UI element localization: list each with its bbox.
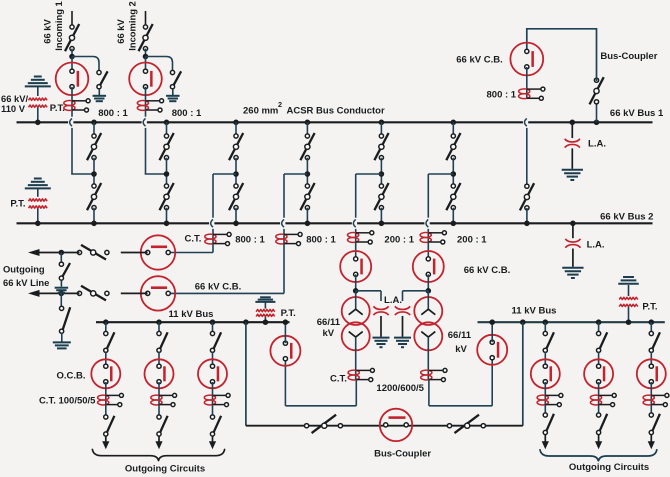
wire LA 2 to ground <box>402 316 404 337</box>
node outgoing circuit L2 bus tap <box>156 319 162 325</box>
arrow outgoing circuit L2 <box>155 441 162 449</box>
node transformer 1 LA junction <box>353 288 359 294</box>
circuit breaker incoming 1 66 kV C.B. <box>56 63 89 96</box>
wire bay 6 selector middle <box>452 158 454 186</box>
svg-text:66 kV C.B.: 66 kV C.B. <box>464 265 510 276</box>
node outgoing circuit L3 bus tap <box>210 319 216 325</box>
wire transformer feeder 2 CT to breaker <box>427 242 429 259</box>
wire outgoing line 2 switch to arrow <box>38 292 80 294</box>
wire bay 2 switch to Bus2 <box>166 208 168 224</box>
oil circuit breaker O.C.B. L3 <box>198 359 227 388</box>
node bay 6 selector junction <box>451 171 457 177</box>
ground outgoing line 2 earth <box>53 341 71 343</box>
wire bay 5 Bus1 to switch <box>380 122 382 134</box>
lightning arrester L.A. Bus 1 <box>571 122 573 138</box>
wire CT L3 to switch <box>212 405 214 417</box>
wire feeder 3 crossover hop at Bus 2 <box>352 222 357 225</box>
switch bay 2 Bus 1 selector <box>160 133 174 160</box>
node bay 6 Bus 2 tap <box>451 221 457 227</box>
wire bay 5 selector middle <box>380 158 382 186</box>
node bay 5 selector junction <box>379 171 385 177</box>
CT R2 outgoing <box>590 395 601 400</box>
svg-text:L.A.: L.A. <box>384 295 402 306</box>
switch bay 2 Bus 2 selector <box>160 183 174 210</box>
wire transformer 2 secondary drop <box>428 380 430 406</box>
circuit breaker transformer 2 66 kV C.B. <box>413 251 444 282</box>
wire LA branch transformer 1 <box>356 290 381 292</box>
wire CT R1 to switch <box>544 405 546 415</box>
wire OCB R1 to CT <box>544 382 546 405</box>
arrow outgoing circuit L3 <box>209 441 216 449</box>
wire transformer feeder 1 CT to breaker <box>355 242 357 259</box>
ground LA transformer 2 <box>394 337 411 339</box>
PT on 11 kV bus left <box>260 296 271 298</box>
wire bay 3 selector middle <box>235 158 237 186</box>
svg-text:C.T.: C.T. <box>330 373 347 384</box>
wire outgoing L1 to switch <box>105 322 107 333</box>
wire outgoing R2 to OCB <box>598 352 600 367</box>
svg-text:Bus-Coupler: Bus-Coupler <box>600 51 657 62</box>
switch coupler Bus 1 isolator <box>590 77 604 104</box>
circuit breaker transformer 1 66 kV C.B. <box>340 251 371 282</box>
node PT1 on Bus 1 <box>35 120 41 126</box>
node LA Bus 2 tap <box>570 221 576 227</box>
wire bay 1 Bus1 to switch <box>93 122 95 134</box>
node bay 1 Bus 1 tap <box>91 120 97 126</box>
wire incoming 1 crossover hop at Bus 1 <box>68 121 73 124</box>
switch bay 5 Bus 1 selector <box>374 133 388 160</box>
wire OCB R2 to CT <box>598 382 600 405</box>
switch outgoing line 1 <box>81 245 106 260</box>
node PT3 on 11 kV bus left <box>263 319 269 325</box>
svg-text:Bus-Coupler: Bus-Coupler <box>374 449 431 460</box>
node PT4 on 11 kV bus right <box>626 319 632 325</box>
transformer 66/11 kV T2 primary <box>414 297 442 325</box>
wire CT L2 to switch <box>158 405 160 417</box>
wire outgoing R1 to arrow <box>544 435 546 443</box>
node outgoing circuit R3 bus tap <box>649 319 655 325</box>
switch outgoing L3 upper <box>214 332 221 348</box>
svg-text:2: 2 <box>278 100 282 109</box>
node coupler riser left tap <box>243 319 249 325</box>
svg-text:Outgoing Circuits: Outgoing Circuits <box>125 464 205 475</box>
wire bay 5 switch to Bus2 <box>380 208 382 224</box>
switch incoming 1 earthing switch <box>100 71 107 85</box>
CT outgoing feeder 1 800:1 <box>205 234 216 239</box>
wire outgoing R2 to arrow <box>598 435 600 443</box>
svg-text:O.C.B.: O.C.B. <box>56 371 85 382</box>
wire bay 6 Bus1 to switch <box>452 122 454 134</box>
svg-text:P.T.: P.T. <box>642 302 657 313</box>
wire outgoing R3 to switch <box>650 322 652 333</box>
wire LA 1 to ground <box>380 316 382 337</box>
CT incoming 2 800:1 <box>137 101 148 106</box>
wire OCB L3 to CT <box>212 382 214 405</box>
wire LA branch transformer 2 <box>403 290 429 292</box>
wire incoming 1 CT to bay <box>71 128 73 174</box>
svg-text:66 kV: 66 kV <box>42 19 53 44</box>
node bay 3 Bus 2 tap <box>233 221 239 227</box>
svg-text:P.T.: P.T. <box>10 199 25 210</box>
wire earthing leg line 2 <box>60 293 62 307</box>
switch outgoing R1 lower <box>547 414 554 431</box>
switch outgoing R3 upper <box>653 332 660 348</box>
wire incomer left breaker to bus <box>284 322 286 343</box>
CT transformer feeder 1 200:1 <box>348 233 359 238</box>
wire T1 link to 11 kV incomer left <box>285 405 356 407</box>
svg-text:800 : 1: 800 : 1 <box>306 235 336 246</box>
wire outgoing line 2 breaker to switch <box>121 292 148 294</box>
node outgoing circuit R2 bus tap <box>596 319 602 325</box>
node bay 3 Bus 1 tap <box>233 120 239 126</box>
switch outgoing line 2 <box>81 286 106 301</box>
wire outgoing R1 to OCB <box>544 352 546 367</box>
node bay 5 Bus 1 tap <box>379 120 385 126</box>
wire transformer feeder 1 below Bus 2 <box>355 229 357 242</box>
node outgoing circuit R1 bus tap <box>543 319 549 325</box>
wire transformer 1 secondary drop <box>355 380 357 406</box>
svg-text:L.A.: L.A. <box>588 139 606 150</box>
svg-text:Outgoing Circuits: Outgoing Circuits <box>569 462 649 473</box>
svg-text:66 kV Bus 1: 66 kV Bus 1 <box>610 108 664 119</box>
switch outgoing L1 upper <box>107 332 114 348</box>
wire outgoing L2 to OCB <box>158 352 160 367</box>
wire outgoing R3 to arrow <box>650 435 652 443</box>
wire outgoing R3 to OCB <box>650 352 652 367</box>
node incoming 1 junction <box>69 54 75 60</box>
wire 66 kV Bus 1 conductor <box>17 121 653 123</box>
wire incoming 2 CT to bay <box>145 128 147 174</box>
svg-text:66 kV Bus 2: 66 kV Bus 2 <box>600 212 653 223</box>
wire bay 6 switch to Bus2 <box>452 208 454 224</box>
CT coupler 800:1 <box>519 89 530 94</box>
wire 11 kV bus right <box>478 321 665 323</box>
switch bay 4 Bus 1 selector <box>300 133 314 160</box>
ground LA Bus 2 <box>562 267 583 269</box>
switch coupler Bus 2 isolator <box>520 183 534 210</box>
oil circuit breaker O.C.B. R1 <box>531 359 560 388</box>
wire incoming 2 to junction <box>145 49 147 57</box>
circuit breaker bus-coupler 66 kV C.B. <box>510 43 543 76</box>
node bay 2 Bus 2 tap <box>164 221 170 227</box>
lightning arrester L.A. transformer 2 <box>395 306 410 309</box>
switch bus-coupler left <box>312 415 337 433</box>
switch bay 1 Bus 1 selector <box>87 133 101 160</box>
arrow outgoing circuit R2 <box>595 441 602 449</box>
wire outgoing L3 to OCB <box>212 352 214 367</box>
wire feeder 1 elbow from selector junction <box>213 173 236 175</box>
switch bay 6 Bus 2 selector <box>446 183 460 210</box>
wire incomer right breaker to bus <box>491 322 493 342</box>
wire outgoing R1 to switch <box>544 322 546 333</box>
wire transformer feeder 2 breaker to junction <box>427 274 429 291</box>
svg-text:66/11: 66/11 <box>448 330 472 341</box>
wire incoming 1 earth stem <box>98 89 100 96</box>
PT on 11 kV bus right <box>623 276 634 278</box>
wire incoming 2 earth stem <box>172 89 174 96</box>
svg-text:C.T. 100/50/5: C.T. 100/50/5 <box>39 396 96 407</box>
switch outgoing L1 lower <box>107 416 114 432</box>
transformer 66/11 kV T2 secondary <box>414 322 442 350</box>
CT incoming 1 800:1 <box>64 101 75 106</box>
arrow outgoing circuit R1 <box>542 441 549 449</box>
wire OCB L1 to CT <box>105 382 107 405</box>
wire earthing leg line 1 <box>60 253 62 264</box>
node transformer 2 LA junction <box>426 288 432 294</box>
switch bay 6 Bus 1 selector <box>446 133 460 160</box>
node bay 4 Bus 1 tap <box>305 120 311 126</box>
PT 66 kV/110 V on Bus 1 <box>34 76 42 78</box>
circuit breaker outgoing 66 kV C.B. 1 <box>141 235 175 269</box>
svg-text:11 kV Bus: 11 kV Bus <box>512 306 557 317</box>
node PT2 on Bus 2 <box>35 221 41 227</box>
CT transformer 1 secondary 1200/600/5 <box>348 370 359 375</box>
wire incoming 1 elbow to selector column <box>71 173 94 175</box>
transformer 66/11 kV T1 primary <box>342 297 370 325</box>
ground LA transformer 1 <box>373 337 390 339</box>
wire coupler crossover hop at Bus 1 <box>523 121 528 124</box>
svg-text:66/11: 66/11 <box>317 317 341 328</box>
arrow outgoing circuit R3 <box>648 441 655 449</box>
node bay 6 Bus 1 tap <box>451 120 457 126</box>
wire bay 1 switch to Bus2 <box>93 208 95 224</box>
lightning arrester L.A. Bus 2 <box>572 223 574 238</box>
wire bay 1 selector middle <box>93 158 95 186</box>
oil circuit breaker O.C.B. R2 <box>584 359 613 388</box>
wire bay 4 Bus1 to switch <box>306 122 308 134</box>
wire bay 4 selector middle <box>306 158 308 186</box>
wire OCB R3 to CT <box>650 382 652 405</box>
CT transformer 2 secondary 1200/600/5 <box>421 370 432 375</box>
wire outgoing feeder 1 CT to elbow <box>212 244 214 253</box>
wire coupler bridge <box>527 29 597 81</box>
lightning arrester L.A. transformer 1 <box>373 306 388 309</box>
switch bay 4 Bus 2 selector <box>300 183 314 210</box>
wire incoming 2 crossover hop at Bus 1 <box>142 121 147 124</box>
node outgoing line 2 junction <box>59 291 65 297</box>
wire CT R2 to switch <box>598 405 600 415</box>
node LA Bus 1 tap <box>570 120 576 126</box>
wire outgoing R2 to switch <box>598 322 600 333</box>
node outgoing line 1 junction <box>59 250 65 256</box>
circuit breaker 11 kV incomer left <box>270 336 300 366</box>
wire outgoing L3 to switch <box>212 322 214 333</box>
wire coupler CT to Bus 2 <box>526 128 528 185</box>
wire bay 3 Bus1 to switch <box>235 122 237 134</box>
CT L2 100/50/5 <box>151 395 162 400</box>
node incomer left on 11 kV bus <box>283 319 289 325</box>
svg-text:Outgoing: Outgoing <box>3 263 45 274</box>
wire outgoing L1 to OCB <box>105 352 107 367</box>
svg-text:260 mm: 260 mm <box>243 105 278 116</box>
svg-text:11 kV Bus: 11 kV Bus <box>169 309 214 320</box>
svg-text:Incoming 2: Incoming 2 <box>127 1 138 50</box>
wire incoming 2 earth branch <box>146 57 173 71</box>
wire CT L1 to switch <box>105 405 107 417</box>
oil circuit breaker O.C.B. L2 <box>145 359 174 388</box>
node coupler riser right tap <box>520 319 526 325</box>
wire 11 kV bus-coupler tie <box>246 425 523 427</box>
svg-text:800 : 1: 800 : 1 <box>172 108 202 119</box>
switch outgoing R2 lower <box>600 414 607 431</box>
svg-text:66 kV: 66 kV <box>115 19 126 44</box>
wire OCB L2 to CT <box>158 382 160 405</box>
oil circuit breaker O.C.B. L1 <box>91 359 120 388</box>
svg-text:1200/600/5: 1200/600/5 <box>376 383 424 394</box>
node bay 1 selector junction <box>91 171 97 177</box>
wire incoming 2 junction to breaker <box>145 57 147 72</box>
switch bay 3 Bus 1 selector <box>229 133 243 160</box>
CT outgoing feeder 2 800:1 <box>276 234 287 239</box>
wire incoming 1 earth branch <box>72 57 99 71</box>
circuit breaker 11 kV bus-coupler <box>380 409 412 441</box>
node bay 2 Bus 1 tap <box>164 120 170 126</box>
node bay 4 selector junction <box>305 171 311 177</box>
wire outgoing L2 to arrow <box>158 436 160 442</box>
wire outgoing L2 to switch <box>158 322 160 333</box>
svg-text:800 : 1: 800 : 1 <box>235 235 265 246</box>
svg-text:800 : 1: 800 : 1 <box>98 108 128 119</box>
wire bay 3 switch to Bus2 <box>235 208 237 224</box>
svg-text:200 : 1: 200 : 1 <box>457 235 487 246</box>
CT L1 100/50/5 <box>98 395 109 400</box>
svg-text:110 V: 110 V <box>1 103 26 114</box>
wire feeder 2 crossover hop at Bus 2 <box>280 222 285 225</box>
transformer 66/11 kV T1 secondary <box>342 322 370 350</box>
svg-text:66 kV Line: 66 kV Line <box>3 277 49 288</box>
switch outgoing L3 lower <box>214 416 221 432</box>
svg-text:kV: kV <box>322 328 334 339</box>
node coupler Bus 1 tap <box>594 120 600 126</box>
wire coupler switch to Bus 2 <box>526 208 528 223</box>
node bay 4 Bus 2 tap <box>305 221 311 227</box>
circuit breaker incoming 2 66 kV C.B. <box>129 63 162 96</box>
switch bay 3 Bus 2 selector <box>229 183 243 210</box>
svg-text:kV: kV <box>455 344 467 355</box>
brace outgoing circuits left <box>92 450 224 461</box>
CT R3 outgoing <box>643 395 654 400</box>
wire coupler breaker to CT <box>526 67 528 98</box>
arrow outgoing circuit L1 <box>102 441 109 449</box>
wire feeder 4 elbow from selector junction <box>428 173 453 175</box>
wire earth stem line 1 <box>60 280 62 286</box>
switch earthing line 1 <box>63 263 70 276</box>
wire bay 2 Bus1 to switch <box>166 122 168 134</box>
wire outgoing line 1 breaker to switch <box>121 252 148 254</box>
brace outgoing circuits right <box>540 450 657 461</box>
switch outgoing R2 upper <box>600 332 607 348</box>
switch bay 1 Bus 2 selector <box>87 183 101 210</box>
wire outgoing line 1 switch to arrow <box>38 252 80 254</box>
switch incoming 2 earthing switch <box>174 71 181 85</box>
wire 11 kV bus left <box>96 321 290 323</box>
node coupler Bus 2 tap <box>524 221 530 227</box>
switch bus-coupler right <box>455 415 480 433</box>
svg-text:C.T.: C.T. <box>185 233 202 244</box>
wire outgoing feeder 2 below Bus 2 <box>283 229 285 244</box>
circuit breaker outgoing 66 kV C.B. 2 <box>141 276 175 310</box>
wire incoming 2 breaker to CT <box>145 87 147 117</box>
switch incoming 1 isolator <box>65 24 79 51</box>
wire feeder 3 elbow from selector junction <box>356 173 382 175</box>
switch incoming 2 isolator <box>139 24 153 51</box>
switch bay 5 Bus 2 selector <box>374 183 388 210</box>
svg-text:66 kV C.B.: 66 kV C.B. <box>456 55 502 66</box>
wire incoming 1 to junction <box>71 49 73 57</box>
node bay 1 Bus 2 tap <box>91 221 97 227</box>
wire bay 2 selector middle <box>166 158 168 186</box>
wire outgoing L3 to arrow <box>212 436 214 442</box>
ground LA Bus 1 <box>562 169 583 171</box>
node bay 3 selector junction <box>233 171 239 177</box>
ground outgoing line 1 earth <box>55 287 69 289</box>
CT L3 100/50/5 <box>204 395 215 400</box>
node bay 5 Bus 2 tap <box>379 221 385 227</box>
CT transformer feeder 2 200:1 <box>420 233 431 238</box>
svg-text:66 kV C.B.: 66 kV C.B. <box>195 282 241 293</box>
wire earth stem line 2 <box>61 333 63 341</box>
switch outgoing L2 upper <box>160 332 167 348</box>
wire incoming 2 elbow to selector column <box>145 173 167 175</box>
CT R1 outgoing <box>537 395 548 400</box>
wire outgoing feeder 1 below Bus 2 <box>212 229 214 244</box>
ground incoming 2 <box>166 95 180 97</box>
wire 66 kV Bus 2 conductor <box>17 222 653 224</box>
wire T2 link to 11 kV incomer right <box>429 405 492 407</box>
switch outgoing R1 upper <box>547 332 554 348</box>
wire coupler riser right <box>522 322 524 426</box>
arrow outgoing 66 kV line 1 <box>28 249 40 256</box>
svg-text:L.A.: L.A. <box>587 240 605 251</box>
wire incoming 1 junction to breaker <box>71 57 73 72</box>
wire coupler riser left <box>245 322 247 426</box>
svg-text:ACSR Bus Conductor: ACSR Bus Conductor <box>287 105 385 116</box>
wire coupler riser from Bus 1 <box>596 103 598 122</box>
svg-text:P.T.: P.T. <box>281 308 296 319</box>
ground incoming 1 <box>93 95 107 97</box>
wire transformer feeder 2 below Bus 2 <box>427 229 429 242</box>
wire incoming 2 line drop <box>145 11 147 25</box>
svg-text:Incoming 1: Incoming 1 <box>53 1 64 50</box>
wire incoming 1 line drop <box>71 11 73 25</box>
switch earthing line 2 <box>63 307 70 329</box>
wire feeder 4 crossover hop at Bus 2 <box>424 222 429 225</box>
PT on Bus 2 left <box>34 178 42 180</box>
wire transformer feeder 1 breaker to junction <box>355 274 357 291</box>
wire incoming 1 breaker to CT <box>71 87 73 117</box>
oil circuit breaker O.C.B. R3 <box>637 359 666 388</box>
svg-text:P.T.: P.T. <box>50 103 65 114</box>
svg-text:800 : 1: 800 : 1 <box>487 89 517 100</box>
wire feeder 1 crossover hop at Bus 2 <box>209 222 214 225</box>
switch outgoing R3 lower <box>653 414 660 431</box>
wire outgoing L1 to arrow <box>105 436 107 442</box>
svg-text:200 : 1: 200 : 1 <box>384 235 414 246</box>
wire bay 4 switch to Bus2 <box>306 208 308 224</box>
wire CT R3 to switch <box>650 405 652 415</box>
switch outgoing L2 lower <box>160 416 167 432</box>
wire feeder 2 elbow from selector junction <box>284 173 307 175</box>
node bay 2 selector junction <box>164 171 170 177</box>
node outgoing circuit L1 bus tap <box>103 319 109 325</box>
wire outgoing feeder 2 CT to elbow <box>283 244 285 294</box>
node incoming 2 junction <box>143 54 149 60</box>
node incomer right on 11 kV bus <box>489 319 495 325</box>
arrow outgoing 66 kV line 2 <box>28 290 40 297</box>
circuit breaker 11 kV incomer right <box>477 335 507 365</box>
